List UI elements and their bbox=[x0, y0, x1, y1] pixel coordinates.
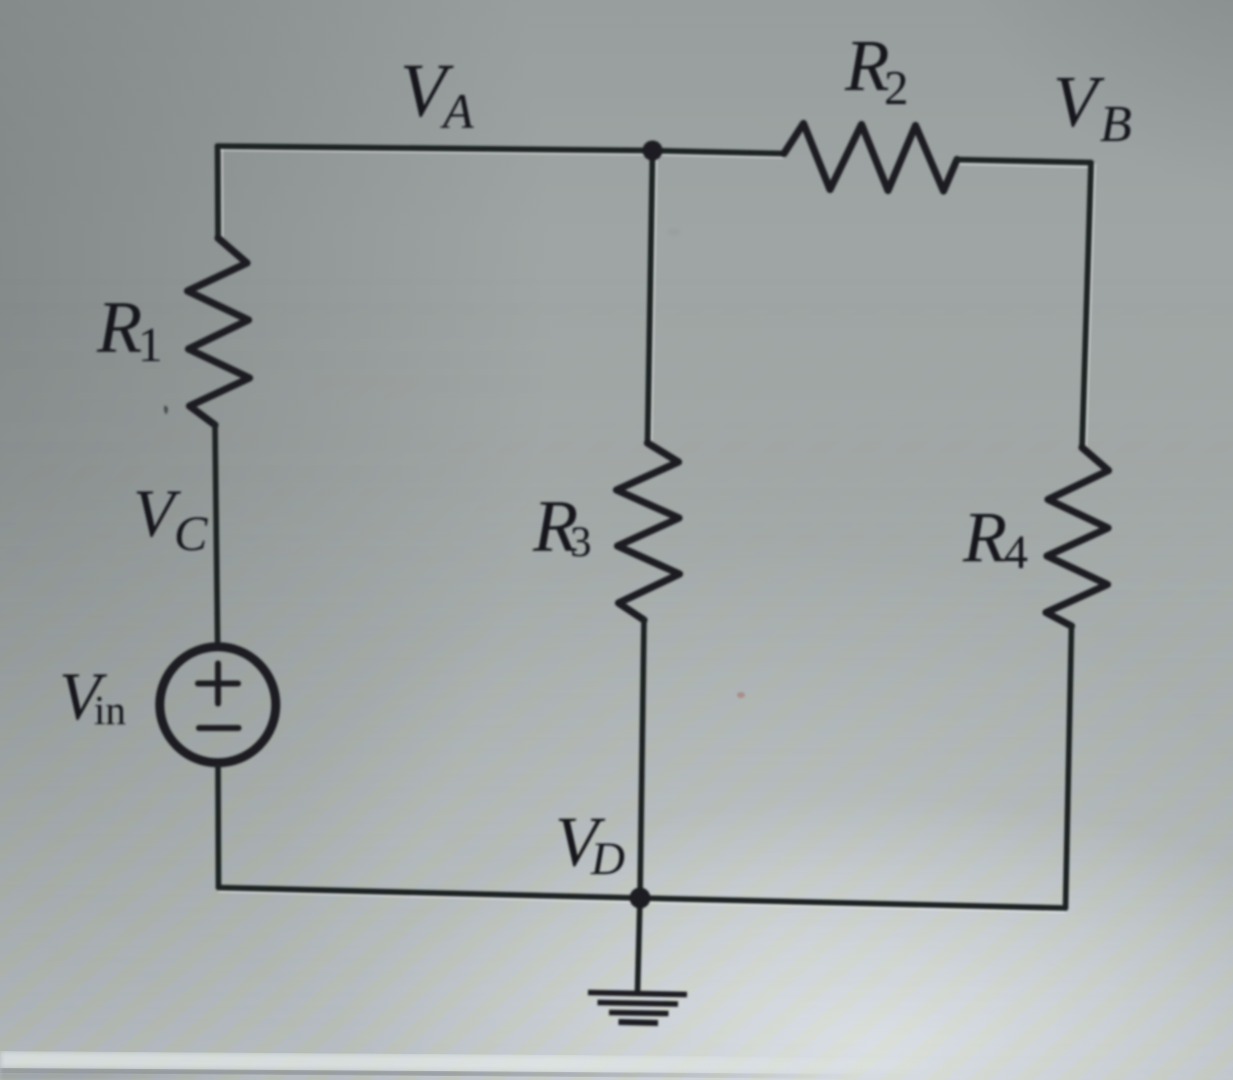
svg-text:4: 4 bbox=[1004, 526, 1028, 579]
svg-text:B: B bbox=[1100, 96, 1132, 153]
svg-text:in: in bbox=[94, 687, 126, 733]
svg-text:1: 1 bbox=[138, 317, 163, 372]
svg-text:D: D bbox=[590, 833, 625, 885]
svg-text:V: V bbox=[1053, 61, 1105, 142]
svg-text:R: R bbox=[844, 25, 890, 106]
svg-text:R: R bbox=[962, 497, 1007, 577]
svg-text:3: 3 bbox=[570, 519, 592, 566]
svg-text:A: A bbox=[440, 83, 474, 139]
svg-text:R: R bbox=[96, 287, 142, 369]
svg-text:2: 2 bbox=[884, 60, 909, 115]
svg-text:C: C bbox=[174, 505, 208, 561]
